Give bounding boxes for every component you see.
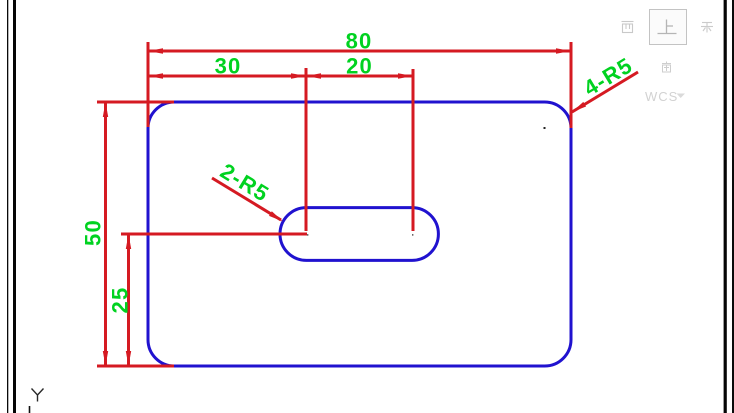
svg-text:20: 20 [346, 54, 373, 79]
svg-text:50: 50 [81, 219, 106, 246]
blip dot [544, 127, 546, 129]
svg-text:WCS: WCS [645, 89, 678, 104]
dimension 50 line [103, 102, 108, 366]
defpoint dot slot left center [307, 234, 308, 235]
viewcube west label (hanzi drawn as strokes) [622, 22, 634, 33]
extension line left (x=148) for dims 80,30 [147, 42, 150, 127]
part outline: rounded rectangle 80x50 R5 [148, 102, 571, 366]
window frame left thick line [13, 0, 16, 413]
window frame right thick line [724, 0, 727, 413]
extension line top horizontal (y=102) for dim 50 [97, 101, 174, 104]
leader 2-R5 line and arrow [212, 178, 283, 222]
viewcube south label (hanzi drawn as strokes) [662, 62, 671, 73]
svg-text:4-R5: 4-R5 [579, 52, 637, 101]
dimension 30 text [215, 54, 242, 79]
extension line bottom horizontal (y=366) for dims 50,25 [97, 365, 174, 368]
viewcube top label (hanzi drawn as strokes) [658, 20, 677, 34]
slot outline: obround 2-R5 [280, 208, 438, 261]
defpoint dot slot right center [412, 234, 413, 235]
dimension 25 line [126, 234, 131, 366]
extension line right (x=571) for dim 80 [570, 42, 573, 128]
svg-text:25: 25 [108, 287, 133, 314]
extension line slot-center horizontal (y=234) for dim 25 [121, 233, 307, 236]
dimension 20 text [346, 54, 373, 79]
viewcube WCS menu [645, 89, 685, 104]
dimension 20 line [306, 73, 413, 78]
dimension 25 text [108, 287, 133, 314]
dimension 80 text [346, 29, 373, 54]
extension line slot-right-center (x=413) [412, 69, 415, 231]
leader 4-R5 text [579, 52, 637, 101]
dimension 80 line [148, 48, 571, 53]
extension line slot-left-center (x=306) [305, 68, 308, 231]
window frame left thin line [7, 0, 8, 413]
viewcube east label (hanzi drawn as strokes) [701, 23, 713, 33]
svg-text:30: 30 [215, 54, 242, 79]
leader 4-R5 line and arrow [572, 72, 638, 112]
window frame right thin line [732, 0, 734, 413]
svg-text:80: 80 [346, 29, 373, 54]
UCS icon Y axis label [32, 389, 44, 402]
leader 2-R5 text [216, 158, 274, 207]
dimension 30 line [148, 73, 306, 78]
viewcube top face box [650, 10, 687, 45]
UCS icon Y axis line [29, 406, 31, 413]
dimension 50 text [81, 219, 106, 246]
